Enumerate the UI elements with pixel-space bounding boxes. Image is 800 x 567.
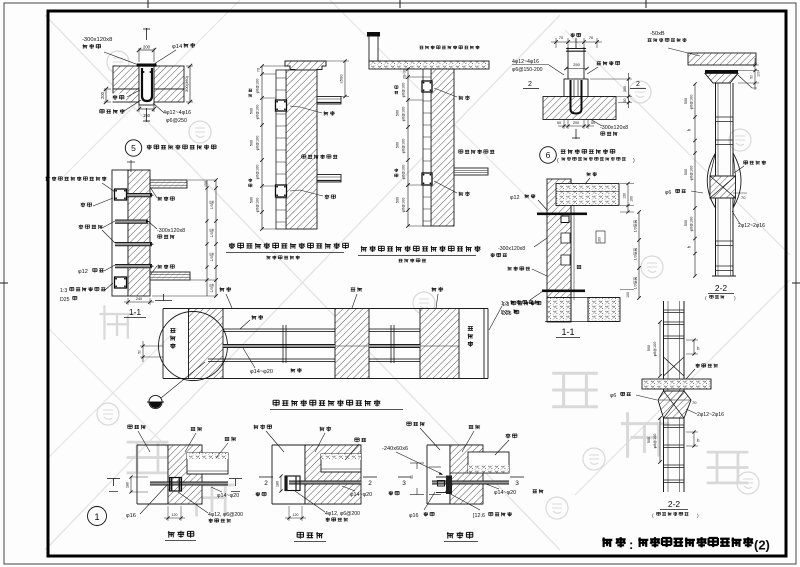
figure 2-2 upper: column elevation (cast-in slab) — [648, 31, 766, 302]
caption scheme2 — [297, 532, 303, 538]
svg-text:φ14~φ20: φ14~φ20 — [350, 492, 372, 498]
svg-text:φ14: φ14 — [172, 44, 183, 50]
svg-text:100: 100 — [630, 196, 634, 202]
circle 5 bubble — [125, 140, 141, 156]
dim 300(360) right — [186, 65, 193, 67]
floor slab right lower — [317, 175, 341, 183]
slab edge lines span 1 — [223, 328, 335, 330]
svg-text:1/3层: 1/3层 — [209, 228, 214, 237]
sheet title: fig.2 reinforcement nodes of new columns (2) — [602, 537, 770, 553]
svg-text:50: 50 — [138, 350, 142, 354]
svg-text:1/3层: 1/3层 — [209, 283, 214, 292]
left dimension chain — [407, 69, 409, 226]
scheme 1 plan — [88, 425, 274, 541]
right small dims near capital — [738, 64, 759, 66]
svg-text:500: 500 — [250, 108, 254, 114]
svg-text:φ6@100: φ6@100 — [402, 107, 406, 122]
detail 6: column under brick wall beam — [512, 33, 646, 164]
svg-text:D25: D25 — [60, 297, 70, 303]
bottom gap verticals — [570, 298, 572, 322]
cut label 2 right s2 — [363, 476, 377, 478]
wall strip (hatched) — [547, 179, 571, 322]
wall left strip (white pocket) — [112, 170, 128, 296]
label ext wall s2 — [320, 427, 325, 432]
svg-text:500: 500 — [250, 197, 254, 203]
svg-text:70: 70 — [559, 35, 564, 40]
svg-text:6: 6 — [546, 150, 551, 160]
section mark 1 top — [146, 28, 148, 40]
wall right strip (hatched) — [128, 170, 150, 296]
svg-text:φ6@100: φ6@100 — [256, 198, 260, 213]
svg-text:-300x120x8: -300x120x8 — [82, 37, 112, 43]
title: stirrup densify diagram (parapet) — [229, 243, 235, 249]
dim 180 marker mid — [596, 231, 605, 243]
figure: tie rod to column connection (no ring beam) — [138, 287, 541, 409]
svg-text:3: 3 — [515, 480, 519, 487]
svg-text:250: 250 — [573, 62, 580, 67]
svg-text:φ6@150-200: φ6@150-200 — [512, 67, 543, 73]
left rebar strip — [423, 69, 431, 226]
svg-text:φ6@100: φ6@100 — [402, 165, 406, 180]
svg-text:120: 120 — [172, 513, 178, 517]
floor slab right upper — [317, 97, 341, 105]
svg-text:2φ12~2φ16: 2φ12~2φ16 — [738, 223, 765, 229]
wall band outline — [163, 308, 488, 310]
svg-text:2: 2 — [264, 480, 268, 487]
label column s1 — [128, 425, 132, 429]
wall (hatched) — [431, 69, 454, 226]
border fold ticks — [147, 0, 149, 8]
svg-text:200: 200 — [573, 121, 579, 125]
svg-text:50: 50 — [750, 75, 754, 79]
label steel plate tie — [744, 161, 748, 165]
dim 250 inside column — [566, 68, 587, 70]
pier 1 (hatched, in circle) — [189, 309, 224, 379]
label ring beam upper — [459, 96, 464, 100]
label slab s3 — [506, 434, 511, 439]
tie rod 1 — [115, 194, 152, 197]
figure 1-1 right: wall section at slab — [491, 172, 641, 338]
floor slab right lower — [150, 272, 190, 280]
top slab (hatched) — [688, 53, 756, 65]
label ring beam — [111, 94, 126, 102]
label ring beam lower — [325, 195, 330, 200]
circle 6 bubble — [540, 147, 557, 164]
column rect + wall scheme3 — [427, 444, 483, 446]
slab band (concrete) — [642, 379, 711, 389]
column U stirrup legs — [571, 80, 582, 114]
label slab layer lower — [158, 265, 162, 269]
figure 1-1 left: wall section with tie rods — [46, 160, 218, 318]
anchor stirrup top — [115, 189, 127, 200]
vertical label column (right end) — [468, 326, 473, 330]
channel anchor scheme3 — [446, 476, 452, 495]
left dim chain — [694, 84, 696, 276]
svg-text:2: 2 — [636, 81, 640, 88]
eave slab (concrete) — [369, 61, 489, 69]
svg-text:1/3层: 1/3层 — [209, 200, 214, 209]
dim 200 left — [104, 88, 111, 90]
svg-text:φ6@100: φ6@100 — [256, 136, 260, 151]
label ring beam — [81, 203, 86, 208]
svg-text:1:3: 1:3 — [501, 301, 508, 307]
figure: column top & floor stirrup densify (under parapet) — [226, 59, 349, 259]
svg-text:500: 500 — [396, 197, 400, 203]
tie rod scheme3 — [432, 481, 509, 484]
stirrup box upper — [276, 100, 287, 111]
small rect detail mid2 — [561, 255, 570, 265]
vertical label column (in circle) — [170, 328, 175, 332]
svg-text:1/3层高: 1/3层高 — [633, 276, 638, 289]
left dim chain lower — [659, 418, 661, 462]
svg-text:φ14~φ20: φ14~φ20 — [217, 493, 239, 499]
svg-text:2: 2 — [368, 480, 372, 487]
wall (hatched) — [286, 70, 317, 229]
svg-text:(2): (2) — [754, 538, 770, 553]
svg-text:500: 500 — [250, 140, 254, 146]
svg-text:1/3层高: 1/3层高 — [633, 219, 638, 232]
column upper strip — [567, 47, 569, 79]
dim 200 above column — [138, 48, 140, 62]
eave left upturn — [369, 36, 378, 61]
svg-text:3: 3 — [402, 480, 406, 487]
wall lower strip — [113, 89, 184, 102]
svg-text:70: 70 — [589, 35, 594, 40]
svg-text:500: 500 — [684, 220, 688, 226]
label steel plate tie — [696, 363, 700, 367]
svg-text:2-2: 2-2 — [668, 499, 681, 509]
pier 2 (hatched) — [335, 309, 369, 379]
caption scheme3 — [447, 532, 454, 539]
bulge hexagon below slab — [658, 391, 691, 418]
cut label 2 right — [259, 476, 273, 478]
svg-text:180: 180 — [598, 237, 602, 243]
svg-text:70: 70 — [741, 195, 746, 200]
svg-text:φ6@100: φ6@100 — [402, 198, 406, 213]
stirrup zone box — [564, 79, 588, 97]
svg-text::: : — [629, 537, 633, 552]
cut label 3 (left of scheme3) — [398, 476, 411, 478]
wall upper strip (hatched) — [113, 66, 184, 89]
dim 180 left s2 — [280, 476, 282, 491]
svg-text:1: 1 — [94, 512, 99, 523]
left end inner edge — [188, 309, 190, 379]
slab scheme2 (inset) — [321, 454, 361, 472]
tie rod span 1 — [223, 345, 335, 348]
wall right face strip — [570, 179, 572, 322]
beam (hatched) — [543, 97, 616, 120]
label column s3 — [407, 422, 411, 426]
h dim right lower — [686, 431, 698, 433]
tie rod 3 — [115, 243, 152, 246]
section bubble bottom-left — [149, 395, 162, 408]
svg-text:D25: D25 — [501, 310, 510, 316]
left rebar strip — [276, 70, 286, 229]
caption scheme1 — [168, 531, 175, 538]
svg-text:50: 50 — [623, 99, 627, 103]
column bottom end — [712, 275, 736, 277]
svg-text:500: 500 — [647, 345, 651, 351]
svg-text:50: 50 — [557, 121, 561, 125]
svg-text:4φ12~4φ16: 4φ12~4φ16 — [163, 110, 191, 116]
svg-text:240: 240 — [136, 297, 142, 301]
svg-text:φ6: φ6 — [665, 190, 671, 196]
column capital wedge (hatched) — [705, 73, 738, 83]
section tick 1 top — [575, 38, 577, 48]
column U stirrup — [142, 68, 152, 101]
svg-text:500: 500 — [647, 437, 651, 443]
svg-text:φ6@100: φ6@100 — [256, 165, 260, 180]
svg-text:500: 500 — [396, 110, 400, 116]
floor slab right upper — [150, 180, 187, 188]
slab scheme1 — [187, 453, 228, 474]
column pocket (white) — [139, 65, 154, 105]
dim 150 below column — [138, 105, 140, 112]
label ring beam upper — [324, 111, 329, 115]
svg-text:φ14~φ20: φ14~φ20 — [250, 369, 273, 375]
left dim chain upper — [659, 322, 661, 376]
note: do not cut slab rebar — [420, 46, 424, 49]
dim 240 bottom — [127, 298, 129, 305]
label column s2 — [254, 425, 259, 430]
svg-text:φ6@250: φ6@250 — [166, 118, 187, 124]
parapet coping cap — [285, 61, 326, 70]
svg-text:φ6@100: φ6@100 — [256, 105, 260, 120]
stirrup box lower — [422, 173, 432, 185]
svg-text:4φ12, φ6@200: 4φ12, φ6@200 — [208, 512, 243, 518]
rungs lower — [664, 424, 685, 426]
svg-text:2φ12~2φ16: 2φ12~2φ16 — [697, 412, 724, 418]
svg-text:70: 70 — [257, 68, 261, 72]
svg-text:-50xB: -50xB — [650, 31, 665, 37]
label slab s1 — [225, 437, 230, 440]
title: stirrup densify diagram (eave) — [361, 246, 367, 252]
svg-text:180: 180 — [276, 481, 280, 487]
section tick 1 bottom — [575, 129, 577, 139]
caption: no ring beam tie rod connection — [273, 400, 279, 406]
svg-text:4φ12~4φ16: 4φ12~4φ16 — [512, 59, 539, 65]
svg-text:300: 300 — [623, 86, 627, 92]
svg-text:-300x120x8: -300x120x8 — [600, 125, 628, 131]
top floor slab (concrete) — [556, 184, 619, 206]
left dimension chain — [261, 66, 263, 229]
bulge hatched core — [710, 176, 736, 198]
anchor stirrup bottom — [115, 277, 127, 288]
label slab s2 — [355, 438, 359, 442]
svg-text:-240x60x6: -240x60x6 — [382, 446, 408, 452]
dim 120 s1 — [167, 506, 169, 521]
detail 5: exterior wall plan with added column — [82, 28, 216, 156]
right dims 300/50 — [590, 78, 632, 80]
svg-text:φ6@100: φ6@100 — [690, 95, 694, 110]
svg-text:-300x120x8: -300x120x8 — [498, 246, 525, 252]
dim <=500 right of cap — [326, 60, 349, 62]
section mark 1 bottom — [146, 108, 148, 122]
label slab above — [587, 172, 591, 176]
label ext wall s3 — [469, 425, 474, 428]
svg-text:180: 180 — [126, 482, 130, 488]
svg-text:2-2: 2-2 — [715, 283, 728, 293]
steel plate under slab — [705, 70, 738, 73]
small dims left s3 — [410, 462, 424, 464]
X brace above slab — [664, 357, 685, 376]
tie rod lower — [542, 290, 585, 293]
splice marks span 1 — [282, 325, 284, 363]
svg-text:φ6@100: φ6@100 — [402, 83, 406, 98]
steel top plate — [137, 64, 157, 67]
svg-text:-300x120x8: -300x120x8 — [157, 228, 185, 234]
single glyph label on wall face — [577, 265, 582, 268]
svg-text:φ6@100: φ6@100 — [690, 217, 694, 232]
slab scheme3 — [468, 452, 509, 473]
bottom slab left part (concrete) — [547, 298, 571, 322]
column rect + wall scheme2 — [272, 444, 361, 446]
scheme 3 plan — [407, 422, 544, 542]
tie rod span 2 — [369, 345, 420, 348]
label ext wall s1 — [191, 427, 196, 430]
label ring beam lower — [459, 192, 464, 196]
right dim chain 1/3 heights — [638, 212, 640, 298]
svg-text:500: 500 — [684, 98, 688, 104]
label: exterior wall w/o cross wall add column — [147, 145, 152, 150]
svg-text:1/3层高: 1/3层高 — [633, 247, 638, 260]
label slab layer upper — [158, 197, 162, 201]
scheme 2 plan — [254, 425, 443, 542]
label densified stirrup zone — [302, 155, 306, 159]
svg-text:1/3层: 1/3层 — [209, 252, 214, 261]
svg-text:φ14~φ20: φ14~φ20 — [494, 490, 516, 496]
stirrup box lower — [276, 185, 287, 197]
big circle callout — [159, 312, 228, 381]
watermark circled logos — [107, 51, 129, 73]
svg-text:200: 200 — [100, 91, 105, 99]
fish-belly bulge outlines — [707, 153, 715, 208]
figure: column top & floor stirrup densify (under eave) — [358, 32, 494, 263]
h dim right upper — [686, 339, 698, 341]
svg-text:2: 2 — [528, 81, 532, 88]
label bearing main bars — [79, 225, 84, 230]
svg-text:4φ12, φ6@200: 4φ12, φ6@200 — [325, 511, 360, 517]
column shaft — [715, 83, 717, 276]
svg-text:[12.6: [12.6 — [473, 513, 485, 519]
svg-text:20~30: 20~30 — [403, 69, 407, 79]
svg-text:φ12: φ12 — [78, 269, 88, 275]
svg-text:100: 100 — [626, 292, 630, 298]
svg-text:φ12: φ12 — [510, 195, 520, 201]
svg-text:≤500: ≤500 — [339, 74, 344, 84]
svg-text:φ6@100: φ6@100 — [653, 434, 657, 449]
svg-text:φ6: φ6 — [610, 393, 616, 399]
svg-text:1-1: 1-1 — [129, 307, 142, 317]
svg-text:70: 70 — [692, 400, 697, 405]
svg-text:φ16: φ16 — [409, 513, 419, 519]
svg-text:150: 150 — [143, 113, 151, 118]
small rect detail mid1 — [561, 233, 570, 243]
tie rod 4 — [115, 265, 152, 268]
svg-text:500: 500 — [684, 169, 688, 175]
slab edge lines span 2 — [369, 328, 420, 330]
dim 70 at bulge — [733, 192, 747, 194]
label mortar bed — [100, 109, 104, 113]
svg-text:φ6@100: φ6@100 — [256, 79, 260, 94]
dim 130/100 right of slab — [620, 183, 634, 185]
anchor box below rod — [561, 216, 569, 223]
svg-text:1:3: 1:3 — [60, 288, 67, 294]
cut label 3 right s3 — [510, 476, 524, 478]
small dim at band left end — [140, 345, 163, 347]
label cast-in wedge — [597, 62, 601, 65]
column rungs below bulge — [716, 240, 734, 242]
dims 50/200/50 below beam — [563, 120, 565, 130]
column shaft — [663, 301, 665, 492]
dim 180 left — [130, 477, 132, 492]
label: add column under beam — [561, 150, 566, 154]
cut mark T right — [229, 478, 242, 480]
bottom slab right part (concrete) — [588, 298, 620, 322]
watermark large outline glyphs — [127, 442, 169, 473]
column rungs upper — [716, 116, 734, 118]
svg-text:300(360): 300(360) — [184, 75, 189, 92]
tie rod 2 — [115, 220, 148, 223]
circle 1 bubble — [88, 507, 107, 526]
tie rod upper — [537, 213, 587, 216]
T mark band left top — [155, 300, 172, 302]
svg-text:100: 100 — [757, 71, 761, 77]
label slab — [252, 315, 257, 320]
column rect + wall scheme1 — [137, 444, 202, 446]
rungs upper — [664, 309, 685, 311]
svg-text:φ6@100: φ6@100 — [690, 166, 694, 181]
svg-text:500: 500 — [396, 142, 400, 148]
label bearing splice zone — [459, 150, 463, 154]
column top double line — [566, 48, 586, 50]
svg-text:200: 200 — [143, 44, 151, 49]
svg-text:120: 120 — [293, 513, 299, 517]
anchor scheme2 — [285, 476, 300, 491]
top section tick — [130, 160, 132, 172]
right dim chain — [215, 180, 217, 296]
right end inner edge — [483, 309, 485, 379]
dim 120 s2 — [288, 506, 290, 521]
svg-text:1-1: 1-1 — [561, 327, 574, 337]
tie rod scheme1 — [150, 482, 228, 485]
anchor box scheme1 — [170, 478, 182, 492]
svg-text:φ16: φ16 — [126, 513, 136, 519]
svg-text:5: 5 — [131, 143, 136, 153]
svg-text:φ6@100: φ6@100 — [402, 139, 406, 154]
dims 70/reserve/70 above — [567, 38, 569, 47]
figure 2-2 lower: column elevation (orig brick wall) — [610, 301, 724, 519]
label: when ring beam tie anchored — [46, 177, 50, 181]
dim 100 bottom right — [620, 289, 634, 291]
labels upper walls (3x) — [220, 287, 225, 292]
tie rod scheme2 — [289, 481, 361, 484]
pier 3 (hatched) — [420, 309, 459, 379]
svg-text:50: 50 — [410, 475, 414, 479]
floor slab right — [454, 168, 488, 175]
svg-text:130: 130 — [623, 193, 627, 199]
svg-text:150: 150 — [204, 181, 208, 187]
label embedded dowel — [508, 267, 512, 271]
stirrup box upper — [422, 81, 432, 92]
splice marks span 2 — [390, 325, 392, 363]
cut mark T left — [107, 478, 120, 480]
edge ticks scheme3 — [429, 466, 441, 468]
rod through piers dashed — [335, 345, 369, 347]
svg-text:φ6@100: φ6@100 — [653, 342, 657, 357]
